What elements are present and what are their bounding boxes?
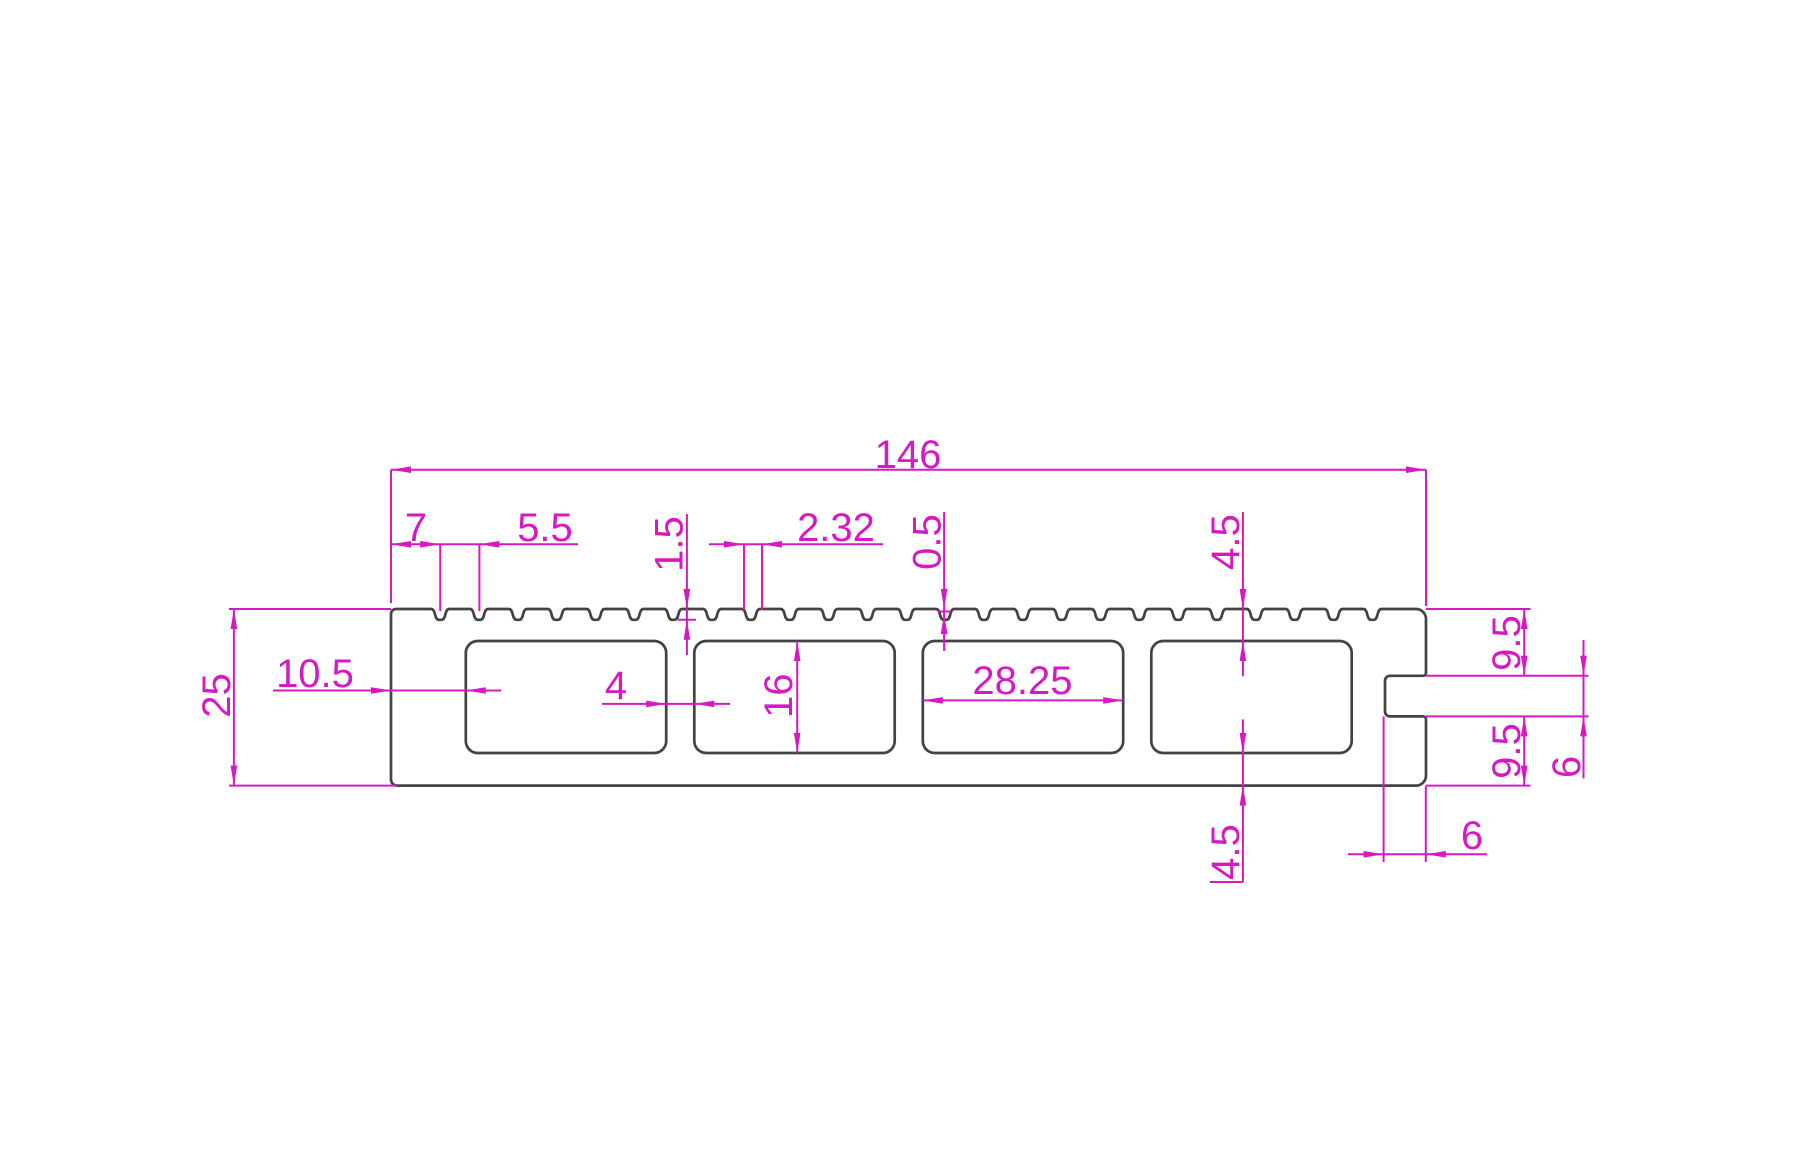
chamber 2 [694,641,894,753]
chamber 4 [1151,641,1351,753]
svg-text:7: 7 [405,506,427,550]
dim 146 extension line left [390,470,392,603]
dim 9.5 lower line [1523,716,1525,785]
dim 4.5 bottom line [1242,719,1244,882]
dim 146 extension line right [1425,470,1427,606]
dim 7 / 5.5 line [391,543,578,545]
dim 0.5 tick [938,611,952,613]
dim 4.5 bottom stub [1210,881,1243,883]
svg-text:6: 6 [1545,756,1589,778]
svg-text:0.5: 0.5 [906,514,950,570]
extension line bottom edge right [1426,785,1531,787]
svg-text:16: 16 [757,674,801,719]
dim 5.5 arrow [479,541,499,548]
dim 25 line [233,609,235,786]
svg-text:6: 6 [1461,814,1483,858]
svg-text:4.5: 4.5 [1204,514,1248,570]
dim 0.5 line [943,512,945,651]
dim 146 line [391,469,1426,471]
svg-text:146: 146 [875,433,942,477]
svg-text:2.32: 2.32 [797,506,875,550]
svg-text:9.5: 9.5 [1485,615,1529,671]
dim 2.32 line [709,543,883,545]
dim 16 line [796,641,798,753]
svg-text:1.5: 1.5 [648,516,692,572]
svg-text:28.25: 28.25 [972,659,1072,703]
dim 4.5 top line [1242,512,1244,676]
svg-text:9.5: 9.5 [1485,723,1529,779]
dim 28.25 line [923,699,1123,701]
chamber 1 [466,641,666,753]
dim 1.5 line [686,514,688,655]
extension line top edge right [1426,608,1531,610]
extension line notch1 [439,544,441,611]
dim 9.5 upper line [1523,609,1525,676]
decking board profile outline [391,609,1426,786]
dim 6 horizontal line [1348,853,1487,855]
svg-text:4: 4 [605,664,627,708]
svg-text:5.5: 5.5 [517,506,573,550]
svg-text:4.5: 4.5 [1204,824,1248,880]
svg-text:25: 25 [195,673,239,718]
dim 25 extension bottom [229,785,397,787]
dim 25 extension top [229,608,391,610]
dim 2.32 extension lines [743,544,745,610]
extension line groove bottom [1426,715,1589,717]
extension line groove inner [1383,716,1385,862]
extension line right edge bottom [1425,786,1427,862]
dim 10.5 line [273,690,501,692]
dim 6 vertical line [1583,640,1585,778]
dim 1.5 tick [678,619,696,621]
extension line groove top [1426,675,1589,677]
dim 7 arrows [391,541,411,548]
chamber 3 [923,641,1123,753]
svg-text:10.5: 10.5 [276,652,354,696]
extension line notch2 [478,544,480,611]
dim 4 line [602,703,730,705]
